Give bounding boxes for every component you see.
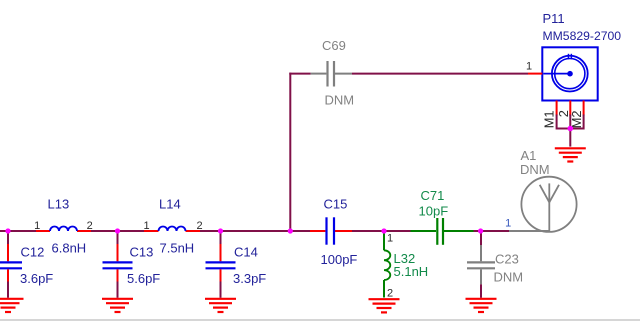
inductor L13 — [34, 196, 93, 255]
P11 pins M1 2 M2 — [542, 101, 585, 129]
ground under C12 — [0, 299, 24, 312]
svg-text:C12: C12 — [21, 244, 45, 259]
svg-text:C69: C69 — [322, 38, 346, 53]
wire vertical riser to C69 — [289, 73, 291, 231]
capacitor C71 — [411, 188, 474, 245]
svg-text:C15: C15 — [324, 196, 348, 211]
wire P11 pins to ground — [557, 115, 584, 147]
svg-text:MM5829-2700: MM5829-2700 — [543, 29, 622, 43]
sheet border bottom — [0, 319, 640, 321]
svg-text:3.6pF: 3.6pF — [20, 271, 53, 286]
svg-text:DNM: DNM — [325, 93, 355, 108]
connector P11 — [542, 11, 621, 100]
svg-text:DNM: DNM — [494, 270, 524, 285]
svg-text:C71: C71 — [421, 188, 445, 203]
svg-text:5.1nH: 5.1nH — [394, 264, 429, 279]
capacitor C14 — [206, 231, 267, 298]
ground under P11 — [555, 148, 586, 161]
svg-text:M1: M1 — [542, 111, 557, 129]
wire top horizontal net — [289, 73, 310, 75]
svg-text:2: 2 — [87, 220, 93, 232]
capacitor C13 — [103, 231, 161, 298]
svg-text:1: 1 — [526, 60, 532, 72]
svg-text:DNM: DNM — [520, 162, 550, 177]
svg-text:1: 1 — [387, 233, 393, 245]
svg-text:L14: L14 — [159, 196, 181, 211]
P11 pin 1 — [526, 60, 542, 73]
inductor L32 — [384, 233, 428, 300]
inductor L14 — [143, 196, 202, 255]
ground under L32 — [369, 299, 400, 312]
svg-text:P11: P11 — [543, 11, 565, 26]
svg-text:100pF: 100pF — [321, 252, 358, 267]
antenna A1 — [505, 148, 576, 232]
capacitor C12 — [0, 231, 53, 298]
svg-text:C23: C23 — [495, 251, 519, 266]
svg-text:C14: C14 — [234, 244, 258, 259]
wire main horizontal net left — [0, 230, 509, 232]
ground under C13 — [102, 299, 133, 312]
svg-text:2: 2 — [196, 220, 202, 232]
svg-text:10pF: 10pF — [419, 204, 449, 219]
svg-text:1: 1 — [34, 220, 40, 232]
capacitor C23 — [467, 231, 523, 298]
svg-text:7.5nH: 7.5nH — [160, 241, 195, 256]
svg-text:L13: L13 — [48, 196, 70, 211]
svg-text:6.8nH: 6.8nH — [52, 241, 87, 256]
capacitor C15 — [310, 196, 357, 267]
ground under C14 — [205, 299, 236, 312]
svg-text:1: 1 — [505, 218, 511, 230]
svg-text:5.6pF: 5.6pF — [127, 271, 160, 286]
svg-text:3.3pF: 3.3pF — [233, 271, 266, 286]
svg-text:C13: C13 — [130, 244, 154, 259]
svg-text:A1: A1 — [521, 148, 537, 163]
svg-text:1: 1 — [143, 220, 149, 232]
ground under C23 — [466, 299, 497, 312]
svg-text:2: 2 — [387, 288, 393, 300]
capacitor C69 — [311, 38, 355, 108]
